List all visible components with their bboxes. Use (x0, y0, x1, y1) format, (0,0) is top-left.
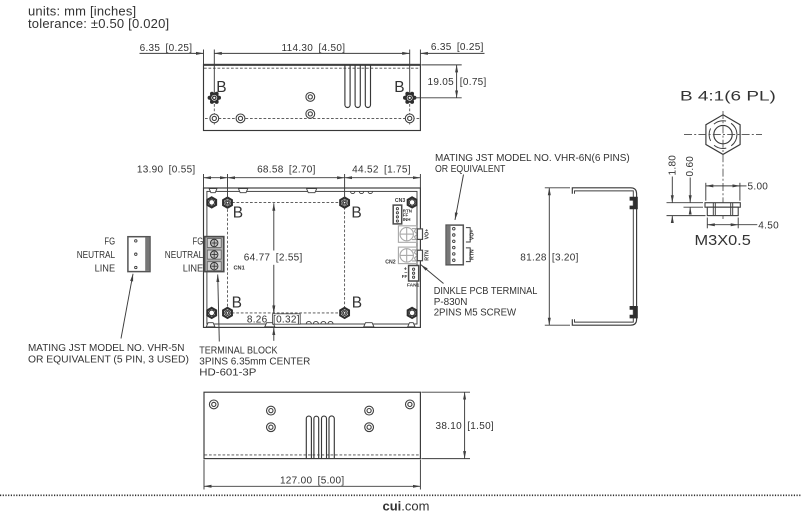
top edge notch 3 (307, 189, 317, 193)
extension line right stud (409, 50, 411, 94)
bore circle (714, 125, 732, 143)
svg-text:6.35 [0.25]: 6.35 [0.25] (140, 43, 193, 54)
RTN tab (417, 250, 422, 261)
dimension 5.00: line (706, 185, 740, 187)
bottom vent slot 3 (322, 416, 327, 458)
svg-text:B 4:1(6 PL): B 4:1(6 PL) (680, 88, 776, 104)
svg-text:CN3: CN3 (395, 198, 405, 204)
main view outer outline (204, 188, 421, 327)
svg-text:[3.20]: [3.20] (552, 252, 579, 263)
MAIN VIEW (28, 153, 630, 378)
stud nut B top-left (223, 198, 232, 208)
svg-text:TERMINAL BLOCK: TERMINAL BLOCK (199, 346, 277, 357)
svg-text:2PINS M5 SCREW: 2PINS M5 SCREW (434, 307, 517, 318)
footer separator (dotted) (0, 494, 801, 496)
DETAIL B (667, 88, 780, 249)
corner screw bottom-right (408, 308, 417, 318)
svg-text:CN2: CN2 (385, 259, 395, 265)
nut hexagon (top view) (706, 115, 740, 155)
svg-text:3PINS 6.35mm CENTER: 3PINS 6.35mm CENTER (199, 356, 310, 367)
svg-text:NEUTRAL: NEUTRAL (77, 250, 116, 261)
svg-text:B: B (351, 204, 361, 221)
bottom view outline (204, 392, 420, 458)
bottom edge notch 2 (265, 323, 275, 327)
top edge notch 1 (209, 189, 217, 193)
svg-text:DINKLE PCB TERMINAL: DINKLE PCB TERMINAL (434, 286, 538, 297)
dimension 127.00: extension lines (203, 460, 205, 490)
bottom edge notch 4 (408, 323, 415, 327)
svg-text:13.90 [0.55]: 13.90 [0.55] (137, 164, 196, 175)
bottom hole pair left (267, 406, 276, 415)
CN3 pins (396, 208, 398, 223)
leader to VHR-6N (455, 175, 464, 220)
svg-text:MATING JST MODEL NO. VHR-5N: MATING JST MODEL NO. VHR-5N (28, 343, 184, 354)
leader to terminal block (218, 275, 220, 342)
corner screw top-left (207, 197, 216, 207)
svg-text:FAN1: FAN1 (407, 283, 420, 289)
VO+ tab (417, 229, 422, 240)
stud nut B left (top view) (208, 92, 221, 104)
hole pair center lower (306, 110, 315, 119)
stud nut B right (top view) (403, 92, 416, 104)
bottom vent slot 2 (314, 416, 319, 458)
bottom vent slot 1 (306, 416, 311, 458)
extension line right edge (419, 50, 421, 65)
svg-text:6.35 [0.25]: 6.35 [0.25] (431, 42, 484, 53)
stud nut B bottom-left (223, 308, 232, 318)
clip top (630, 197, 638, 209)
dimension 6.35 right: line (420, 52, 484, 54)
svg-text:64.77: 64.77 (244, 252, 271, 263)
hole below left stud (210, 114, 219, 123)
extension line left stud (213, 50, 215, 94)
mating connector VHR-5N body (128, 237, 150, 272)
TOP VIEW (140, 42, 487, 130)
VHR-6N bracket VO+ (466, 228, 470, 242)
dimension chain line 68.58 (228, 177, 345, 179)
leader to VHR-5N (121, 274, 133, 339)
stud nut B bottom-right (340, 308, 349, 318)
bottom hole corner right (406, 400, 415, 409)
main view inner outline (207, 191, 417, 324)
svg-text:1.80: 1.80 (667, 155, 678, 176)
leader to DINKLE terminal (421, 265, 444, 284)
connector FAN1 body (409, 266, 419, 282)
nut profile flange (705, 203, 740, 208)
svg-text:38.10: 38.10 (435, 421, 462, 432)
centerline vertical (722, 111, 724, 219)
VHR-6N bracket RTN (466, 248, 470, 262)
BOTTOM VIEW (204, 392, 494, 489)
svg-text:P-830N: P-830N (434, 297, 468, 308)
dimension 6.35 left: line (140, 52, 204, 54)
dimension chain line 44.52 (345, 177, 421, 179)
svg-text:HD-601-3P: HD-601-3P (199, 367, 256, 378)
top view hidden edge (dashed, upper) (204, 67, 420, 69)
bottom vent slot 4 (329, 416, 334, 458)
svg-text:[0.75]: [0.75] (460, 77, 487, 88)
extension line left edge (203, 50, 205, 65)
boxed text [0.32] (273, 314, 301, 324)
VHR-5N pins (135, 240, 137, 269)
svg-text:FG: FG (193, 236, 204, 247)
svg-text:CN1: CN1 (234, 265, 245, 271)
svg-text:44.52 [1.75]: 44.52 [1.75] (352, 164, 411, 175)
screw terminal RTN (CN2) (398, 247, 417, 264)
dimension 114.30: line (214, 52, 409, 54)
svg-text:OR EQUIVALENT (5 PIN, 3 USED): OR EQUIVALENT (5 PIN, 3 USED) (28, 355, 189, 366)
svg-text:B: B (233, 204, 243, 221)
hole below right stud (405, 114, 414, 123)
svg-text:B: B (216, 79, 226, 96)
VHR-6N pins (453, 227, 456, 261)
svg-text:[0.32]: [0.32] (273, 314, 300, 325)
svg-text:127.00 [5.00]: 127.00 [5.00] (280, 476, 345, 487)
svg-text:B: B (352, 295, 362, 312)
svg-text:INH: INH (403, 217, 411, 222)
dimension 0.60 leader (689, 178, 691, 203)
corner screw top-right (408, 197, 417, 207)
top view outline (204, 65, 421, 131)
svg-text:M3X0.5: M3X0.5 (695, 233, 751, 249)
dashed stud centerline right (409, 104, 411, 125)
top edge bumps (3) (351, 191, 355, 193)
svg-text:NEUTRAL: NEUTRAL (165, 250, 204, 261)
mating connector VHR-6N body (446, 225, 463, 265)
svg-text:VO+: VO+ (469, 230, 475, 241)
dimension 38.10: line (464, 392, 466, 458)
stud nut B top-right (340, 198, 349, 208)
corner screw bottom-left (207, 308, 216, 318)
svg-text:RTN: RTN (424, 250, 430, 261)
svg-text:[2.55]: [2.55] (276, 252, 303, 263)
svg-text:0.60: 0.60 (685, 156, 696, 177)
thread lines (712, 203, 714, 215)
vent slot 3 (365, 65, 370, 108)
svg-text:8.26: 8.26 (247, 314, 268, 325)
FAN1 pins (413, 268, 415, 278)
svg-text:114.30 [4.50]: 114.30 [4.50] (282, 43, 346, 54)
clip bottom (630, 306, 638, 318)
svg-text:81.28: 81.28 (520, 252, 547, 263)
dimension 64.77 vertical line (273, 203, 275, 250)
svg-text:4.50: 4.50 (758, 220, 779, 231)
terminal screws (211, 239, 218, 270)
bottom hole pair right (365, 406, 374, 415)
svg-text:[1.50]: [1.50] (467, 421, 494, 432)
vent slot 2 (355, 65, 360, 107)
svg-text:RTN: RTN (469, 249, 475, 260)
bottom edge notch 1 (206, 323, 215, 327)
bottom edge notch 3 (364, 323, 374, 327)
svg-text:19.05: 19.05 (427, 77, 454, 88)
svg-text:68.58 [2.70]: 68.58 [2.70] (257, 164, 316, 175)
hole pair center upper (306, 93, 315, 102)
vent slot 1 (345, 65, 350, 108)
top view hidden centerline (dashed, lower) (205, 117, 420, 119)
dimension 19.05: extension lines (421, 64, 461, 66)
dimension 1.80 extension lines (667, 202, 704, 204)
svg-text:FG: FG (104, 236, 115, 247)
terminal block CN1 body (205, 237, 224, 272)
svg-text:LINE: LINE (183, 264, 204, 275)
bottom vent bumps (4) (306, 321, 311, 324)
dimension 8.26 arrows (273, 305, 275, 313)
svg-text:FF: FF (402, 274, 408, 279)
connector CN3 body (393, 205, 402, 224)
bottom hidden edge (dashed) (205, 454, 421, 456)
svg-text:B: B (394, 79, 404, 96)
top edge notch 2 (238, 189, 247, 193)
side view outer contour (572, 188, 636, 325)
dashed stud centerline left (213, 104, 215, 125)
screw terminal VO+ (CN2) (398, 226, 417, 243)
svg-text:LINE: LINE (95, 264, 116, 275)
dimension 38.10: extension lines (421, 391, 470, 393)
dimension 81.28: line (548, 188, 550, 325)
dimension 1.80 leader (671, 177, 673, 203)
svg-text:tolerance: ±0.50 [0.020]: tolerance: ±0.50 [0.020] (28, 16, 169, 31)
dashed stud rectangle (228, 203, 345, 313)
dimension 5.00: extension lines (705, 183, 707, 201)
bottom hole corner left (209, 400, 218, 409)
dimension 4.50: line (707, 224, 738, 226)
dimension 81.28: extension lines (545, 187, 570, 189)
hole at x240 (236, 114, 245, 123)
svg-text:B: B (232, 295, 242, 312)
dimension 4.50: extension lines (706, 218, 708, 229)
extension lines for chain (203, 174, 205, 188)
svg-text:OR EQUIVALENT: OR EQUIVALENT (435, 164, 505, 175)
terminal block cells (207, 239, 221, 248)
dimension 19.05: line (456, 65, 458, 98)
svg-text:MATING JST MODEL NO. VHR-6N(6: MATING JST MODEL NO. VHR-6N(6 PINS) (435, 153, 630, 164)
svg-text:5.00: 5.00 (748, 182, 769, 193)
thread circle (broken) (709, 121, 737, 149)
svg-text:cui.com: cui.com (383, 499, 430, 514)
svg-text:VO+: VO+ (424, 229, 430, 240)
centerline horizontal (684, 134, 762, 136)
dimension chain line 13.90 (204, 177, 228, 179)
dimension 127.00: line (204, 485, 420, 487)
nut profile body (707, 207, 738, 215)
side view inner contour (575, 191, 634, 322)
SIDE VIEW (520, 188, 638, 325)
